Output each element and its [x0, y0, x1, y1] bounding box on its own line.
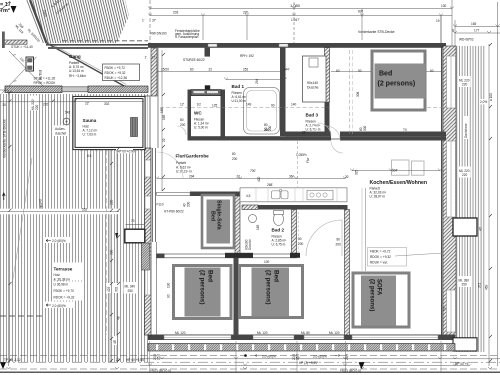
right wall window 1 [447, 56, 456, 108]
svg-text:22': 22' [85, 102, 90, 106]
svg-text:220: 220 [43, 103, 49, 107]
svg-text:80: 80 [232, 152, 236, 156]
svg-text:RDOK = +9,32: RDOK = +9,32 [370, 255, 391, 259]
svg-text:(2 persons): (2 persons) [369, 279, 375, 311]
svg-text:25/20: 25/20 [161, 68, 169, 72]
svg-text:Flur/Garderobe: Flur/Garderobe [176, 154, 210, 159]
vertical dim line x=162 [161, 50, 163, 191]
svg-text:FBOK = +9,72: FBOK = +9,72 [370, 250, 391, 254]
terrace decking left [0, 94, 150, 362]
svg-text:700': 700' [250, 169, 256, 173]
svg-text:RDOK = +9,32: RDOK = +9,32 [54, 296, 75, 300]
dashed roof line through rooms [160, 107, 330, 109]
svg-text:HP 00 +0.99: HP 00 +0.99 [117, 150, 135, 154]
svg-text:RDOK = +9,32: RDOK = +9,32 [105, 71, 126, 75]
svg-text:220: 220 [243, 11, 249, 15]
wc counter [191, 90, 221, 96]
svg-text:22: 22 [302, 131, 306, 135]
svg-text:200: 200 [268, 125, 272, 131]
svg-text:Terrasse: Terrasse [54, 267, 73, 272]
svg-text:200: 200 [336, 243, 342, 247]
svg-text:7m²: 7m² [0, 7, 10, 14]
kitchen wall [242, 205, 258, 210]
top dim row 1 [150, 8, 452, 10]
svg-text:A: 36,38 m²: A: 36,38 m² [54, 278, 70, 282]
svg-text:Bed: Bed [210, 211, 216, 221]
svg-text:469: 469 [485, 284, 489, 290]
svg-text:Gang: Gang [69, 54, 81, 59]
bed bottom-left frame [174, 266, 232, 319]
study top wall [190, 192, 250, 197]
svg-text:Vorderkante STB-Decke: Vorderkante STB-Decke [3, 119, 7, 158]
svg-text:SOFA: SOFA [376, 279, 382, 296]
svg-text:Vorderkante STB-Decke: Vorderkante STB-Decke [358, 30, 395, 34]
svg-text:ML 80: ML 80 [301, 331, 310, 335]
door arc bedroom mid [306, 220, 342, 256]
door arc bad3 [318, 123, 331, 136]
right dim column [488, 44, 490, 366]
svg-text:1': 1' [142, 19, 145, 23]
svg-text:200: 200 [187, 201, 191, 207]
svg-text:8: 8 [452, 29, 454, 33]
svg-text:U:11,00 m: U:11,00 m [232, 99, 247, 103]
bed top-right frame [372, 51, 425, 110]
terrasse label [52, 263, 82, 281]
svg-text:Bed: Bed [379, 71, 392, 78]
bottom hatched balcony band [148, 344, 455, 352]
gang left wall stub [4, 40, 27, 44]
svg-text:90: 90 [271, 104, 275, 108]
sofa frame [353, 273, 409, 327]
svg-text:542: 542 [65, 111, 71, 115]
svg-text:19: 19 [436, 19, 440, 23]
rw downpipe box top-left [26, 57, 34, 71]
svg-text:36/¹: 36/¹ [289, 175, 295, 179]
svg-text:60: 60 [430, 69, 434, 73]
svg-text:48: 48 [117, 316, 121, 320]
wall stub above wc [205, 48, 211, 57]
door arc wc [177, 126, 186, 135]
svg-text:a 100: a 100 [489, 93, 493, 101]
bed top-right mattress [375, 64, 426, 99]
svg-text:U: 28,97 m: U: 28,97 m [370, 195, 386, 199]
door arc flur-terrace [157, 152, 183, 178]
svg-text:130: 130 [441, 4, 447, 8]
svg-text:RDUK = +12,36: RDUK = +12,36 [105, 76, 128, 80]
svg-text:RPOK = RDOK: RPOK = RDOK [34, 81, 57, 85]
eave diagonal lower continuation [47, 43, 126, 87]
svg-text:1.080: 1.080 [290, 3, 301, 8]
svg-text:220: 220 [462, 83, 468, 87]
svg-text:1/2: 1/2 [197, 103, 202, 107]
svg-text:80: 80 [337, 238, 341, 242]
svg-text:22: 22 [162, 138, 166, 142]
fbok info box gang [103, 64, 140, 81]
svg-text:STÜRZE 60/22: STÜRZE 60/22 [183, 58, 205, 62]
terrace decking right strip [456, 46, 486, 352]
svg-text:302: 302 [104, 102, 110, 106]
svg-text:90: 90 [167, 294, 171, 298]
svg-text:+9,01 (BO 0,0): +9,01 (BO 0,0) [150, 369, 171, 373]
svg-text:4,5: 4,5 [246, 194, 251, 198]
svg-text:Kochen/Essen/Wohnen: Kochen/Essen/Wohnen [370, 180, 428, 186]
eave diagonal band upper [30, 0, 47, 43]
wall under bad3/bedroom [285, 132, 331, 137]
svg-text:RW DN100: RW DN100 [151, 32, 167, 36]
svg-text:40': 40' [479, 226, 483, 231]
svg-text:220: 220 [462, 173, 468, 177]
svg-text:1': 1' [145, 56, 148, 60]
flur south wall [188, 136, 332, 140]
right wall window 2 (living) [447, 141, 456, 217]
svg-text:140: 140 [291, 103, 297, 107]
sauna walls [73, 96, 146, 150]
dim under bad1 [226, 79, 285, 81]
svg-text:ML 120: ML 120 [257, 331, 268, 335]
svg-text:294: 294 [255, 78, 259, 84]
washbasin bad2 [249, 215, 257, 223]
svg-text:390: 390 [110, 249, 114, 255]
svg-text:1.055½: 1.055½ [296, 153, 307, 157]
svg-text:Holz: Holz [54, 273, 61, 277]
diagonal dim line below eave [2, 51, 46, 98]
bathtub bad1 [244, 88, 280, 135]
svg-text:22: 22 [345, 175, 349, 179]
svg-text:U:13,54 m: U:13,54 m [69, 69, 84, 73]
ladder hatch left wall low [142, 243, 150, 270]
bed bottom-mid mattress [252, 268, 290, 317]
gang bottom wall [88, 86, 148, 93]
fbok info living [368, 248, 407, 267]
single sofa bed frame [202, 195, 234, 248]
right exterior wall [441, 46, 443, 338]
sauna dims [65, 102, 110, 158]
hp dashed under sauna [80, 150, 150, 152]
svg-text:1.047': 1.047' [291, 18, 300, 22]
svg-text:HP (2) +9,59*: HP (2) +9,59* [299, 361, 319, 365]
svg-text:220: 220 [35, 104, 39, 110]
hp labels [116, 149, 133, 154]
svg-text:2,0 (60)%: 2,0 (60)% [262, 355, 276, 359]
svg-text:552: 552 [82, 208, 88, 212]
svg-text:U: 7,63 m: U: 7,63 m [83, 133, 97, 137]
svg-text:332: 332 [115, 286, 119, 292]
door arc living entry [326, 126, 340, 140]
interior dim row y=178 [157, 178, 345, 180]
svg-text:607: 607 [358, 10, 364, 14]
svg-text:325: 325 [355, 169, 359, 175]
svg-text:Flur: Flur [306, 157, 310, 163]
svg-text:2,0%: 2,0% [480, 100, 487, 104]
svg-text:2,0 (60)%: 2,0 (60)% [52, 239, 66, 243]
svg-text:308: 308 [356, 91, 360, 97]
slope arrow lower terrace [44, 302, 74, 309]
svg-text:420: 420 [257, 176, 261, 182]
svg-text:48': 48' [113, 339, 117, 344]
corner triangle [11, 6, 17, 13]
svg-text:25,0: 25,0 [296, 354, 300, 360]
svg-text:250: 250 [128, 289, 134, 293]
svg-text:F110: F110 [157, 203, 164, 207]
bottom dim rows [0, 355, 500, 357]
svg-text:268': 268' [267, 183, 273, 187]
left dim column [8, 90, 10, 366]
study right wall [235, 196, 240, 255]
svg-text:177: 177 [474, 29, 480, 33]
svg-text:ML 340: ML 340 [125, 285, 136, 289]
bad2 right wall [292, 210, 297, 255]
svg-text:(2 persons): (2 persons) [199, 270, 206, 304]
dining table [392, 160, 410, 175]
wall above bedrooms [157, 254, 297, 258]
right annex boxes [453, 218, 477, 236]
svg-text:Parkett: Parkett [176, 161, 186, 165]
svg-text:Bad 2: Bad 2 [272, 228, 285, 233]
svg-text:80: 80 [298, 237, 302, 241]
svg-text:ML 120: ML 120 [175, 331, 186, 335]
svg-text:FBOK = +9,70: FBOK = +9,70 [54, 289, 75, 293]
svg-text:duschef: duschef [55, 132, 66, 136]
terrace construction lines [0, 209, 119, 215]
svg-text:149: 149 [246, 103, 252, 107]
svg-text:WD-08*02: WD-08*02 [459, 38, 474, 42]
svg-text:22: 22 [237, 175, 241, 179]
svg-text:37': 37' [152, 19, 157, 23]
bottom marks [244, 354, 247, 357]
right strip labels [458, 76, 471, 87]
svg-text:U: 6,75 m: U: 6,75 m [272, 243, 286, 247]
svg-text:80: 80 [180, 118, 184, 122]
bad3 left wall [280, 48, 286, 136]
svg-text:(2 persons): (2 persons) [265, 270, 272, 304]
svg-text:70: 70 [131, 219, 135, 223]
svg-text:294: 294 [189, 175, 195, 179]
svg-text:60: 60 [336, 69, 340, 73]
svg-text:FBOK = +9,72: FBOK = +9,72 [105, 66, 126, 70]
FURNITURE [26, 51, 426, 327]
bad3 / bedroom wall [325, 48, 330, 102]
bottom exterior wall [148, 335, 455, 341]
svg-text:2,0 (60)%: 2,0 (60)% [52, 304, 66, 308]
sink [272, 191, 281, 199]
svg-text:HP 00 +9,85: HP 00 +9,85 [126, 358, 144, 362]
svg-text:Dachrinne: Dachrinne [464, 123, 468, 138]
svg-text:165: 165 [471, 22, 477, 26]
svg-text:RPH: 192: RPH: 192 [240, 54, 254, 58]
svg-text:ML 120: ML 120 [329, 331, 340, 335]
svg-text:Bed: Bed [273, 270, 280, 282]
svg-text:Bed: Bed [207, 270, 214, 282]
svg-text:125: 125 [212, 104, 218, 108]
svg-text:203: 203 [173, 11, 179, 15]
wc walls [188, 90, 192, 137]
svg-text:200: 200 [298, 242, 304, 246]
svg-text:190: 190 [167, 282, 171, 288]
svg-text:100: 100 [264, 260, 270, 264]
svg-text:300: 300 [363, 125, 367, 131]
small black marker terrace [115, 233, 118, 239]
bed bottom-left mattress [185, 268, 221, 317]
svg-text:372: 372 [478, 282, 482, 288]
svg-text:U 36,98 m: U 36,98 m [54, 283, 69, 287]
svg-text:2,0 (60)%: 2,0 (60)% [313, 355, 327, 359]
svg-text:25,0: 25,0 [157, 354, 161, 360]
single sofa bed mattress [207, 200, 231, 244]
svg-text:lt. Fassadenplan: lt. Fassadenplan [175, 35, 199, 39]
svg-text:HT-P80 60/22: HT-P80 60/22 [164, 210, 184, 214]
svg-text:Bad 3: Bad 3 [306, 113, 319, 118]
svg-text:250: 250 [462, 283, 468, 287]
kitchen counter [240, 188, 347, 202]
wall between bedrooms [234, 258, 239, 335]
svg-text:STUK = +11,40: STUK = +11,40 [11, 45, 33, 49]
svg-text:U: 5,00 m: U: 5,00 m [194, 126, 208, 130]
left arrow marker [2, 193, 5, 200]
interior dim row y=70 top rooms [157, 71, 280, 73]
svg-text:E01/78: E01/78 [38, 70, 42, 80]
bed bottom-mid frame [240, 266, 303, 318]
svg-text:22: 22 [209, 68, 213, 72]
svg-text:165: 165 [162, 114, 166, 120]
svg-text:+9,01 (BO 0,0): +9,01 (BO 0,0) [340, 369, 361, 373]
upper left wall next to sauna (window) [145, 96, 151, 148]
living left wall [345, 210, 350, 336]
svg-text:Dusche: Dusche [248, 239, 252, 250]
svg-text:HP 00 +9,...: HP 00 +9,... [455, 362, 472, 366]
shower bad3 [303, 56, 327, 102]
svg-text:429: 429 [107, 286, 111, 292]
svg-text:220: 220 [110, 199, 114, 205]
tick marks top [148, 7, 454, 9]
svg-text:U: 6,71¹ m: U: 6,71¹ m [306, 128, 321, 132]
ML 220/220 gang window [30, 96, 40, 111]
svg-text:Bad 1: Bad 1 [232, 84, 245, 89]
svg-text:20,5: 20,5 [345, 354, 349, 360]
svg-text:Dusche: Dusche [307, 86, 319, 90]
svg-text:200: 200 [232, 157, 238, 161]
svg-text:TP 00 -2,12: TP 00 -2,12 [4, 358, 21, 362]
svg-text:90x140: 90x140 [307, 81, 318, 85]
svg-text:Außen-: Außen- [55, 127, 65, 131]
svg-text:304': 304' [392, 169, 398, 173]
svg-text:8 8: 8 8 [87, 154, 92, 158]
svg-text:U:17,21¹ m: U:17,21¹ m [176, 170, 192, 174]
svg-text:20: 20 [3, 103, 7, 107]
gang window band to terrace [5, 86, 62, 93]
svg-text:(2 persons): (2 persons) [378, 81, 416, 88]
white box annex left [125, 229, 145, 243]
svg-text:RDUK = var.: RDUK = var. [370, 261, 388, 265]
svg-text:90: 90 [358, 69, 362, 73]
outdoor shower [53, 126, 69, 137]
svg-text:165: 165 [256, 224, 260, 230]
right wall window 3 [447, 290, 456, 332]
svg-text:WC: WC [194, 111, 202, 116]
sauna heater [131, 118, 138, 137]
svg-text:STUK = +11,92: STUK = +11,92 [34, 77, 56, 81]
toilet bad2 [274, 213, 284, 226]
svg-text:17': 17' [152, 56, 157, 60]
svg-text:144': 144' [284, 68, 290, 72]
left exterior wall [145, 148, 152, 335]
svg-text:60: 60 [190, 68, 194, 72]
cooktop [307, 190, 333, 200]
svg-text:252: 252 [243, 68, 249, 72]
svg-text:12': 12' [180, 103, 185, 107]
svg-text:RH: ~3,64m: RH: ~3,64m [69, 74, 86, 78]
top exterior wall [148, 43, 446, 48]
svg-text:Sauna: Sauna [83, 118, 97, 123]
sofa seat [361, 276, 396, 326]
svg-text:200: 200 [180, 123, 186, 127]
